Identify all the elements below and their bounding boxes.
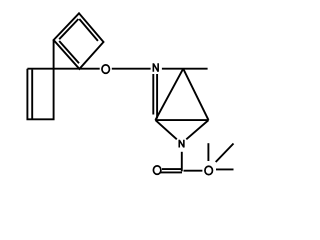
cyclobutene ring left/bottom/right edges bbox=[27, 40, 53, 119]
wire main horizontal bond line left (ring top edge + C-C + C-O) bbox=[27, 68, 99, 70]
carbonyl O atom label bbox=[153, 166, 161, 174]
ring N atom label bbox=[179, 140, 184, 148]
tert-butyl methyl diagonal bbox=[216, 144, 234, 163]
ether O atom label bbox=[102, 65, 110, 73]
cyclobutadiene ring (diamond) bbox=[54, 13, 104, 69]
ester O atom label bbox=[205, 166, 213, 174]
bond ring N to carbonyl C bbox=[181, 152, 183, 172]
C=O double bond line 1 bbox=[162, 168, 183, 170]
diamond double bond inner line B-L bbox=[59, 41, 79, 63]
bond right cage vertex to ring N bbox=[186, 120, 208, 139]
bond top vertex to right cage vertex bbox=[183, 69, 208, 120]
C=O double bond line 2 bbox=[161, 171, 183, 173]
bond left cage vertex to ring N bbox=[155, 120, 176, 139]
bond top vertex to left cage vertex bbox=[155, 69, 183, 120]
oxime N atom label bbox=[153, 63, 158, 72]
cyclobutene double bond inner line bbox=[31, 70, 33, 119]
C=N double bond line 2 bbox=[156, 74, 158, 119]
wire N-C bond plus methyl bbox=[162, 68, 208, 70]
tert-butyl methyl up bbox=[207, 143, 209, 161]
bond left cage vertex to right cage vertex bbox=[155, 119, 208, 121]
tert-butyl methyl right bbox=[216, 168, 234, 170]
diamond double bond inner line L-T bbox=[59, 19, 78, 39]
C=N double bond line 1 bbox=[152, 74, 154, 115]
diamond double bond inner line T-R bbox=[79, 19, 98, 41]
bond carbonyl C to ester O bbox=[184, 170, 203, 172]
wire O-N bond bbox=[112, 68, 151, 70]
